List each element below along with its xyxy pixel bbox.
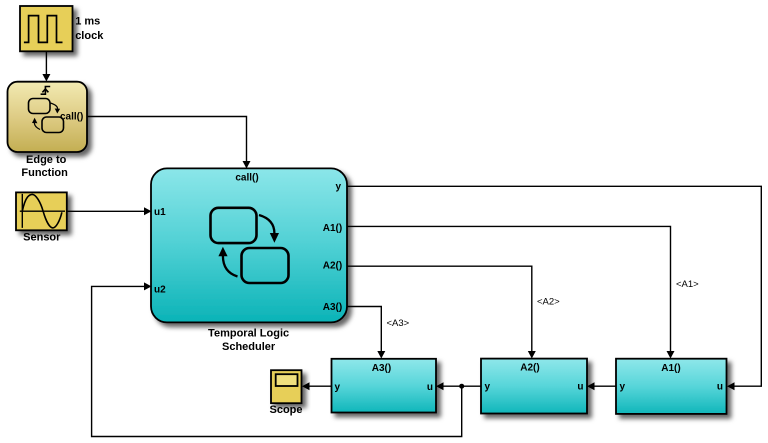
svg-text:<A3>: <A3> [387,318,410,329]
sine icon axes [20,194,65,228]
svg-text:y: y [620,381,626,392]
svg-text:A1(): A1() [661,363,680,374]
svg-text:A1(): A1() [323,223,342,234]
wire edge-to-function to chart call [88,117,247,162]
pulse generator icon [24,16,63,43]
mini state rect 2 [42,117,64,133]
svg-text:Edge to: Edge to [26,154,67,166]
junction dot [459,384,464,389]
svg-text:u: u [717,381,723,392]
svg-text:u2: u2 [154,284,166,295]
block A3 [332,359,437,413]
chart Temporal Logic Scheduler [151,168,347,322]
svg-text:<A2>: <A2> [537,297,560,308]
svg-text:u: u [427,382,433,393]
mini arrow right [51,103,58,110]
feedback wire to u2 [92,286,462,436]
chart inner state rect 1 [211,208,257,243]
chart inner arrow right [259,215,274,234]
mini state rect 1 [29,99,51,114]
svg-text:y: y [485,381,491,392]
mini arrow left [34,122,40,130]
chart inner arrow left [223,256,238,277]
chart inner state rect 2 [242,248,289,283]
svg-text:<A1>: <A1> [676,279,699,290]
svg-text:A3(): A3() [372,363,391,374]
wire A2() to A2 trigger [348,266,532,352]
wire A3 y to Scope [309,385,332,387]
block A2 [481,359,587,414]
sensor block [16,192,67,230]
wire y output to A1 u input [348,186,762,386]
wire pulse gen to edge-to-function [45,52,47,76]
svg-text:A3(): A3() [323,302,342,313]
wire A2 y to A3 u with feedback branch [443,385,481,387]
svg-text:u: u [577,381,583,392]
svg-text:y: y [335,182,341,193]
svg-text:A2(): A2() [323,261,342,272]
sine icon wave [22,194,62,228]
wire A3() to A3 trigger [348,307,382,353]
svg-text:clock: clock [75,30,104,42]
edge to function block [8,82,88,152]
svg-text:1 ms: 1 ms [75,16,100,28]
svg-text:call(): call() [235,172,258,183]
wire A1 y to A2 u [594,385,616,387]
wire A1() to A1 trigger [348,226,671,352]
svg-text:y: y [335,382,341,393]
scope screen icon [276,374,298,386]
svg-text:Scope: Scope [269,404,302,416]
trigger icon [41,87,51,95]
scope block [271,370,302,403]
svg-text:Function: Function [21,167,68,179]
block A1 [616,359,727,414]
svg-text:u1: u1 [154,207,166,218]
svg-text:Temporal Logic: Temporal Logic [208,327,289,339]
svg-text:Sensor: Sensor [23,231,61,243]
wire sensor to u1 [68,210,145,212]
pulse generator block "1 ms clock" [20,6,73,51]
svg-text:Scheduler: Scheduler [222,341,276,353]
svg-text:A2(): A2() [520,363,539,374]
svg-text:call(): call() [60,111,83,122]
